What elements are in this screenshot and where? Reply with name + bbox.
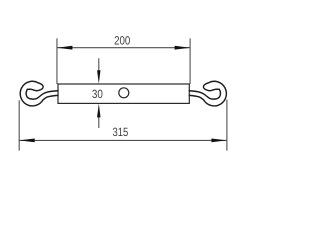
svg-text:30: 30: [92, 87, 103, 101]
svg-text:315: 315: [113, 125, 129, 139]
svg-text:200: 200: [114, 33, 130, 47]
